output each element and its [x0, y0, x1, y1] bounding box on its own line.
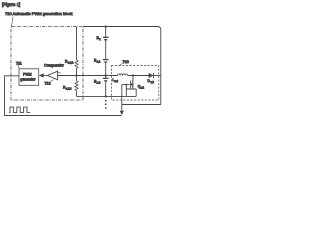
module bottom sense wire	[77, 95, 137, 97]
leader line 712	[51, 80, 54, 82]
arrowhead down onto pwm wire	[120, 111, 124, 115]
node battery stack top	[105, 25, 107, 27]
transistor Qx,2	[132, 76, 134, 80]
square wave symbol	[9, 107, 30, 112]
svg-text:710 Automatic PWM generation b: 710 Automatic PWM generation block	[5, 11, 73, 16]
node divider tap	[75, 74, 77, 76]
node battery mid tap	[105, 74, 107, 76]
svg-text:generator: generator	[20, 77, 36, 81]
pwm output wire	[5, 76, 122, 116]
resistor Rx,2,1	[75, 60, 78, 68]
battery stack column wire	[105, 27, 107, 98]
node riser crossing	[121, 96, 123, 98]
comparator 712	[48, 71, 58, 80]
battery cell Bx,2	[103, 78, 109, 80]
inductor Lx,2	[118, 74, 128, 76]
gate drive riser wire	[121, 85, 123, 111]
svg-text:x,1: x,1	[97, 59, 101, 63]
battery stack ellipsis dots	[105, 100, 107, 102]
block 720 boundary	[112, 66, 159, 101]
bottom rail wire	[122, 104, 161, 106]
leader line 711	[18, 65, 20, 69]
wire inductor to drain	[128, 75, 149, 77]
block 710 boundary	[11, 27, 83, 101]
PWM generator 711 box	[19, 69, 39, 86]
battery cell Bx	[103, 37, 109, 39]
battery cell Bx,1	[103, 60, 109, 62]
svg-text:x,2: x,2	[151, 81, 155, 84]
svg-text:711: 711	[16, 62, 22, 66]
svg-text:x,2,2: x,2,2	[66, 88, 72, 91]
divider wire middle	[76, 68, 78, 81]
arrowhead into PWM generator	[39, 73, 44, 78]
comparator upper input stub	[58, 72, 61, 74]
diode output wire	[153, 75, 160, 77]
gate wire	[122, 84, 130, 86]
leader line 710	[12, 17, 14, 27]
divider wire lower	[76, 91, 78, 97]
comparator output wire	[44, 75, 48, 77]
svg-text:x,2: x,2	[97, 80, 101, 84]
svg-text:[Figure 1]: [Figure 1]	[2, 2, 20, 7]
svg-text:x,2,1: x,2,1	[68, 62, 74, 65]
svg-text:720: 720	[123, 60, 129, 64]
svg-text:Comparator: Comparator	[44, 64, 65, 68]
diode Dx,2	[149, 73, 154, 78]
node battery bottom tap	[105, 95, 107, 97]
svg-text:712: 712	[45, 81, 51, 85]
main sense wire comparator to inductor	[58, 75, 118, 77]
svg-text:PWM: PWM	[23, 72, 32, 76]
source return loop	[126, 85, 136, 97]
leader line 720	[119, 63, 123, 66]
node drain junction	[132, 74, 134, 76]
node gate riser junction	[125, 84, 127, 86]
top rail wire	[83, 27, 161, 105]
resistor Rx,2,2	[75, 81, 78, 91]
divider wire upper	[76, 27, 78, 61]
